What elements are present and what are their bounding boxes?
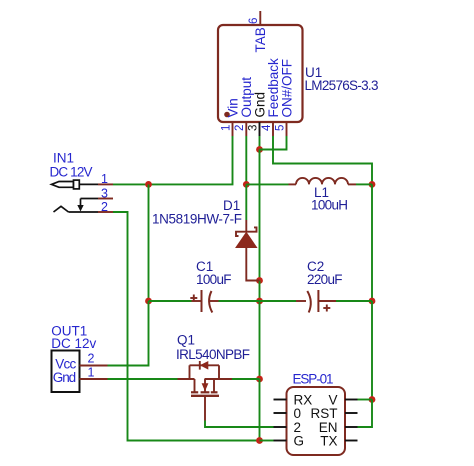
svg-text:G: G <box>294 433 305 448</box>
wire: switch node down to D1 cathode <box>245 184 247 220</box>
svg-text:1N5819HW-7-F: 1N5819HW-7-F <box>152 212 242 227</box>
wire: 12V rail down to OUT1 Vcc <box>108 301 149 366</box>
junction: ground rail at ESP G row <box>256 437 263 444</box>
svg-text:ESP-01: ESP-01 <box>293 372 334 387</box>
junction: ground rail at C row <box>256 298 263 305</box>
svg-text:1: 1 <box>88 366 95 380</box>
wire: U1 Feedback (pin4) to Vout rail <box>273 136 372 184</box>
svg-text:2: 2 <box>101 200 108 214</box>
ESP-01 pin stub RX <box>274 399 287 401</box>
wire: IN1 pin2 ground rail down <box>113 212 260 441</box>
svg-text:100uF: 100uF <box>196 272 232 287</box>
wire: switch node to L1 left <box>246 183 288 185</box>
ESP-01 pin stub TX <box>345 440 358 442</box>
wire: ground rail down to ESP G row <box>259 379 261 441</box>
U1 pin 2 stub <box>245 122 247 136</box>
wire: 12V node to U1 Vin corner <box>149 136 233 184</box>
regulator U1 body <box>218 25 303 122</box>
wire: G row to ESP-01 G pin <box>260 440 274 442</box>
junction: switch node <box>243 181 250 188</box>
svg-text:6: 6 <box>248 18 260 24</box>
IN1 switch arm (pin 3) <box>77 199 98 212</box>
OUT1 pin 2 stub <box>80 365 108 367</box>
svg-text:2: 2 <box>88 352 95 366</box>
junction: Vout rail at C2 <box>369 298 376 305</box>
ESP-01 pin stub RST <box>345 412 358 414</box>
module ESP-01 body <box>287 387 346 455</box>
inductor L1 <box>289 178 357 185</box>
svg-text:100uH: 100uH <box>311 198 348 213</box>
svg-text:4: 4 <box>261 124 273 131</box>
wire: U1 Gnd (pin3) down <box>259 136 261 150</box>
U1 pin 6 TAB stub <box>259 11 261 25</box>
svg-text:2: 2 <box>234 125 246 131</box>
connector OUT1 body <box>52 351 80 393</box>
svg-text:DC 12V: DC 12V <box>50 165 93 180</box>
svg-text:RST: RST <box>311 406 338 421</box>
connector IN1 barrel jack tip (pin 1) <box>52 180 99 189</box>
wire: OUT1 Gnd pin to Q1 gate <box>108 378 178 380</box>
ESP-01 pin stub 2 <box>274 426 287 428</box>
junction: Vout rail at ESP V <box>369 396 376 403</box>
wire: Vout rail down to C2 <box>371 184 373 301</box>
svg-text:1: 1 <box>101 172 108 186</box>
wire: ESP V pin to Vout rail <box>358 399 373 401</box>
U1 pin 5 stub <box>286 122 288 136</box>
wire: C row 12V to C1 <box>149 300 192 302</box>
wire: Q1 drain to ground rail <box>232 378 260 380</box>
svg-text:0: 0 <box>294 406 302 421</box>
svg-text:3: 3 <box>247 125 259 131</box>
wire: ground rail to C row <box>259 281 261 302</box>
svg-text:DC 12v: DC 12v <box>51 336 96 351</box>
svg-text:IN1: IN1 <box>53 151 74 166</box>
junction: ground rail at Q1 drain <box>256 376 263 383</box>
wire: ON#/OFF (pin5) hook to Gnd <box>260 136 287 150</box>
wire: ground rail down to Q1 drain row <box>259 301 261 379</box>
junction: 12V rail at C1 row <box>145 298 152 305</box>
wire: ground rail from U1 Gnd down to D1 anode <box>259 150 261 281</box>
wire: C2 to Vout rail <box>336 300 372 302</box>
IN1 pin 1 stub <box>98 183 113 185</box>
U1 pin 4 stub <box>272 122 274 136</box>
capacitor C1 (polarized) <box>190 290 218 313</box>
diode D1 (schottky) <box>236 220 260 281</box>
svg-text:TAB: TAB <box>253 27 268 52</box>
svg-text:ON#/OFF: ON#/OFF <box>279 59 294 118</box>
svg-text:1: 1 <box>220 125 232 131</box>
svg-text:TX: TX <box>320 433 337 448</box>
junction: Vout node at L1 <box>369 181 376 188</box>
ESP-01 pin stub V <box>345 399 358 401</box>
U1 pin 1 indicator dot <box>224 112 230 118</box>
svg-text:Q1: Q1 <box>177 333 195 348</box>
junction: ground rail at D1 anode <box>256 277 263 284</box>
IN1 pin 2 stub <box>98 211 113 213</box>
ESP-01 pin stub EN <box>345 426 358 428</box>
U1 pin 3 stub <box>259 122 261 136</box>
wire: L1 right to Vout node <box>356 183 372 185</box>
svg-text:LM2576S-3.3: LM2576S-3.3 <box>305 78 379 93</box>
wire: 12V rail down to C1 <box>148 184 150 301</box>
IN1 sleeve (pin 2) <box>54 206 99 212</box>
ESP-01 pin stub G <box>274 440 287 442</box>
junction: Gnd / ON#OFF tie <box>256 146 263 153</box>
wire: ESP EN pin hook to Vout rail <box>358 400 373 428</box>
svg-text:3: 3 <box>101 186 108 200</box>
svg-text:Gnd: Gnd <box>53 370 76 385</box>
wire: IN1 pin1 to 12V node <box>113 183 149 185</box>
wire: Q1 source to ESP GPIO2 <box>205 421 274 428</box>
wire: U1 Output (pin2) to switch node <box>245 136 247 184</box>
IN1 pin 3 stub <box>98 198 113 200</box>
wire: Vout rail down to ESP V pin <box>371 301 373 400</box>
wire: ground rail to C2 <box>260 300 297 302</box>
svg-text:5: 5 <box>274 125 286 131</box>
junction: 12V node at IN1 <box>145 181 152 188</box>
transistor Q1 (N-MOSFET with body diode) <box>178 361 421 421</box>
svg-text:220uF: 220uF <box>307 272 343 287</box>
svg-text:IRL540NPBF: IRL540NPBF <box>176 347 250 362</box>
OUT1 pin 1 stub <box>80 378 108 380</box>
capacitor C2 (polarized) <box>296 290 336 313</box>
U1 pin 1 stub <box>232 122 234 136</box>
wire: C1 to ground rail <box>219 300 260 302</box>
ESP-01 pin stub 0 <box>274 412 287 414</box>
